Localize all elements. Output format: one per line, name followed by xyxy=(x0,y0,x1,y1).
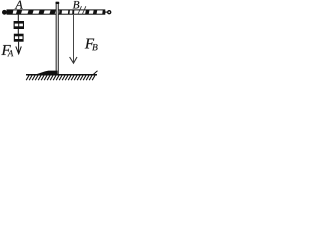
force arrow F_B (down at B) xyxy=(70,15,77,63)
link between weights xyxy=(17,29,19,34)
weight box 2 xyxy=(14,34,24,42)
node B label xyxy=(73,1,79,8)
right end ring xyxy=(108,11,111,14)
hanger link from beam at A xyxy=(17,15,19,22)
support post xyxy=(56,2,58,74)
hatch strokes crossing/poking above beam xyxy=(78,6,82,14)
ground line xyxy=(26,74,97,76)
stray hatch above ground right end xyxy=(94,71,98,74)
wedge base on ground xyxy=(36,71,57,75)
label F_B xyxy=(85,39,94,49)
beam AB (hatched rod) xyxy=(7,10,105,15)
ground hatching xyxy=(26,75,95,80)
node A label xyxy=(15,1,23,9)
label F_A xyxy=(1,45,10,55)
support post top cap xyxy=(56,2,60,4)
force arrow F_A (down from weights) xyxy=(16,42,21,54)
weight box 1 xyxy=(14,21,24,29)
right end stub wire xyxy=(105,11,108,13)
pivot dot at left wall xyxy=(2,10,7,15)
